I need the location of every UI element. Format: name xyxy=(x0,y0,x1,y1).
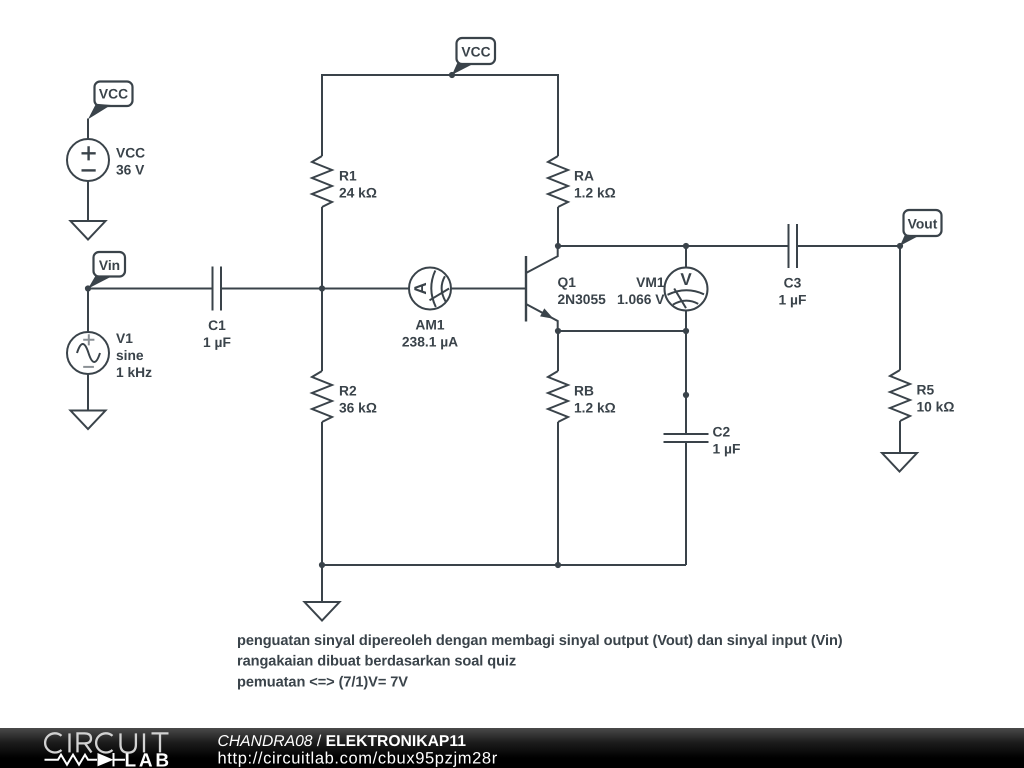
resistor RB xyxy=(548,371,568,422)
wire C1 right plate to AM1 left xyxy=(221,288,409,290)
power flag VCC top xyxy=(452,38,495,75)
svg-text:RB: RB xyxy=(574,384,594,399)
svg-text:C1: C1 xyxy=(208,318,226,333)
resistor RA xyxy=(548,156,568,207)
svg-text:36 kΩ: 36 kΩ xyxy=(339,401,377,416)
svg-text:1 kHz: 1 kHz xyxy=(116,365,152,380)
wire ground stub bottom xyxy=(321,565,323,602)
svg-text:VCC: VCC xyxy=(461,45,490,60)
footer bar xyxy=(0,728,1024,768)
resistor R5 xyxy=(890,370,910,421)
capacitor C1 xyxy=(213,267,222,311)
svg-text:pemuatan <=> (7/1)V= 7V: pemuatan <=> (7/1)V= 7V xyxy=(237,675,408,691)
wire C3 right plate to Vout node xyxy=(798,245,901,247)
node junction dot emitter rail at VM1 xyxy=(683,328,689,334)
svg-text:RA: RA xyxy=(574,169,594,184)
svg-text:36 V: 36 V xyxy=(116,163,145,178)
minus sign inside VCC source xyxy=(82,169,96,171)
wire R1 bottom to R2 top through base node xyxy=(321,207,323,371)
svg-text:1.066 V: 1.066 V xyxy=(617,292,665,307)
svg-text:C2: C2 xyxy=(713,425,731,440)
wire VM1 bottom lead to C2 xyxy=(685,311,687,435)
plus sign inside VCC source xyxy=(82,146,96,160)
wire VCC source bottom to ground xyxy=(87,181,89,221)
node junction dot Vout xyxy=(897,243,903,249)
wire V1 bottom to ground xyxy=(87,374,89,411)
wire top VCC rail from R1 top to RA top xyxy=(322,75,558,156)
svg-text:R2: R2 xyxy=(339,384,357,399)
sine source V1 circle xyxy=(67,332,109,374)
wire emitter rail xyxy=(558,330,686,332)
wire Vin node down to V1 top xyxy=(87,289,89,333)
svg-text:AM1: AM1 xyxy=(415,318,444,333)
gray plus inside V1 xyxy=(83,334,94,345)
svg-text:R1: R1 xyxy=(339,169,357,184)
resistor R1 xyxy=(312,156,332,207)
node junction dot at top VCC tap xyxy=(449,72,455,78)
svg-text:Vout: Vout xyxy=(908,217,938,232)
wire RA bottom to collector node xyxy=(557,207,559,246)
svg-text:penguatan sinyal dipereoleh de: penguatan sinyal dipereoleh dengan memba… xyxy=(237,633,843,649)
wire VM1 top lead xyxy=(685,246,687,268)
gray minus inside V1 xyxy=(83,366,94,368)
svg-text:V1: V1 xyxy=(116,331,133,346)
wire Vin node to C1 left plate xyxy=(88,288,213,290)
voltage source VCC circle xyxy=(67,139,109,181)
svg-text:C3: C3 xyxy=(784,276,802,291)
ground symbol below V1 xyxy=(71,411,106,430)
svg-text:Vin: Vin xyxy=(99,258,120,273)
svg-text:A: A xyxy=(411,282,430,294)
svg-text:VCC: VCC xyxy=(116,146,145,161)
net flag Vin xyxy=(88,252,125,289)
wire emitter node to RB top xyxy=(557,331,559,371)
node junction dot Vin xyxy=(85,285,91,291)
logo CIRCUIT wordmark xyxy=(45,733,168,752)
ground symbol below R5 xyxy=(882,453,917,472)
svg-text:LAB: LAB xyxy=(125,751,172,768)
ammeter AM1 xyxy=(409,268,451,310)
svg-text:Q1: Q1 xyxy=(558,275,577,290)
svg-text:1 µF: 1 µF xyxy=(713,442,741,457)
svg-text:R5: R5 xyxy=(917,383,935,398)
voltmeter VM1 xyxy=(665,268,708,311)
net flag Vout xyxy=(900,210,942,246)
svg-text:V: V xyxy=(680,270,692,289)
node junction dot bottom rail at RB xyxy=(555,562,561,568)
svg-text:1.2 kΩ: 1.2 kΩ xyxy=(574,401,616,416)
svg-text:1 µF: 1 µF xyxy=(203,335,231,350)
ground symbol bottom center xyxy=(305,602,340,621)
node junction dot base rail at x322 xyxy=(319,285,325,291)
node junction dot collector xyxy=(555,243,561,249)
svg-text:24 kΩ: 24 kΩ xyxy=(339,186,377,201)
svg-text:http://circuitlab.com/cbux95pz: http://circuitlab.com/cbux95pzjm28r xyxy=(218,750,498,768)
power flag VCC left xyxy=(88,82,133,120)
wire R5 bottom to ground xyxy=(899,421,901,453)
capacitor C3 xyxy=(789,224,798,268)
svg-text:CHANDRA08 / ELEKTRONIKAP11: CHANDRA08 / ELEKTRONIKAP11 xyxy=(218,733,467,750)
svg-text:1 µF: 1 µF xyxy=(779,293,807,308)
capacitor C2 xyxy=(664,434,709,442)
wire VCC flag to source top xyxy=(87,119,89,140)
svg-text:2N3055: 2N3055 xyxy=(558,292,607,307)
svg-text:sine: sine xyxy=(116,348,144,363)
node junction dot emitter xyxy=(555,328,561,334)
wire R2 bottom to bottom rail xyxy=(321,422,323,565)
wire bottom rail xyxy=(322,564,686,566)
node junction dot VM1 top xyxy=(683,243,689,249)
logo resistor squiggle and diode xyxy=(45,753,126,766)
wire AM1 right to Q1 base xyxy=(451,288,526,290)
sine wave inside V1 xyxy=(77,344,100,362)
svg-text:10 kΩ: 10 kΩ xyxy=(917,400,955,415)
transistor Q1 2N3055 xyxy=(526,246,558,331)
svg-text:VCC: VCC xyxy=(99,87,128,102)
resistor R2 xyxy=(312,371,332,422)
wire Vout node to R5 top xyxy=(899,246,901,370)
ground symbol below VCC source xyxy=(71,221,106,240)
svg-text:VM1: VM1 xyxy=(636,275,665,290)
svg-text:1.2 kΩ: 1.2 kΩ xyxy=(574,186,616,201)
node junction dot C2 top xyxy=(683,392,689,398)
node junction dot bottom rail left xyxy=(319,562,325,568)
svg-text:238.1 µA: 238.1 µA xyxy=(402,335,458,350)
wire RB bottom to bottom rail xyxy=(557,422,559,565)
wire collector rail to C3 left plate xyxy=(558,245,788,247)
svg-text:rangakaian dibuat berdasarkan: rangakaian dibuat berdasarkan soal quiz xyxy=(237,654,516,670)
wire C2 bottom to bottom rail xyxy=(685,442,687,565)
